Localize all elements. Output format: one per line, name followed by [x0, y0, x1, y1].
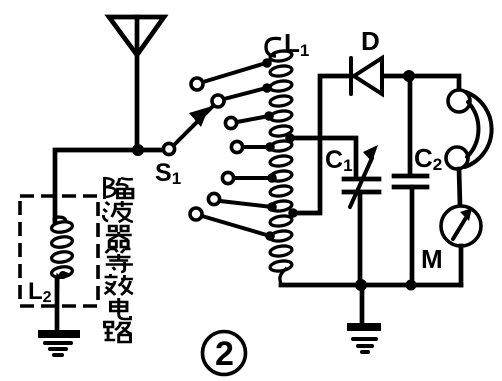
antenna	[109, 17, 164, 150]
wire L1 upper tap to C1 top	[290, 138, 356, 176]
meter M	[441, 206, 481, 285]
wire switch contact 5 to coil tap 5	[234, 176, 272, 180]
wire L1 lower tap to diode branch	[293, 76, 352, 213]
capacitor C1 (variable)	[344, 145, 379, 285]
switch S1	[163, 78, 242, 220]
figure label 2 (circled)	[203, 332, 246, 375]
inductor L2	[51, 217, 73, 306]
diode D	[351, 58, 409, 94]
wire switch contact 2 to coil tap 2	[224, 88, 266, 99]
capacitor C2	[394, 176, 427, 285]
wire switch contact 4 to coil tap 4	[243, 145, 270, 149]
svg-text:M: M	[421, 244, 443, 274]
inductor L1	[266, 38, 293, 285]
L1 tap nodes	[262, 58, 298, 241]
headphones	[446, 90, 492, 205]
dashed box (wave-trap equivalent circuit)	[20, 196, 98, 306]
wire switch contact 6 to coil tap 6	[220, 201, 272, 207]
wire junction to switch pole	[138, 148, 163, 153]
node antenna junction	[132, 144, 144, 156]
node C2 bus junction	[406, 280, 417, 291]
wire switch contact 7 to coil tap 7	[202, 216, 270, 236]
wire diode junction to headphone	[409, 76, 459, 90]
ground (main)	[347, 285, 381, 352]
wire switch contact 1 to coil tap 1	[203, 63, 266, 82]
wire junction to left branch	[55, 150, 138, 222]
wire L2 to ground	[55, 280, 60, 331]
node diode junction	[403, 70, 415, 82]
svg-text:D: D	[361, 26, 380, 56]
node C1 bus junction	[355, 279, 367, 291]
annotation text: 陷波器等效电路 (vertical)	[103, 177, 133, 342]
svg-text:2: 2	[215, 335, 234, 373]
wire junction down to C2	[408, 76, 413, 173]
wire bottom bus	[281, 283, 461, 288]
ground (left)	[38, 334, 80, 355]
wire switch contact 3 to coil tap 3	[237, 116, 269, 122]
